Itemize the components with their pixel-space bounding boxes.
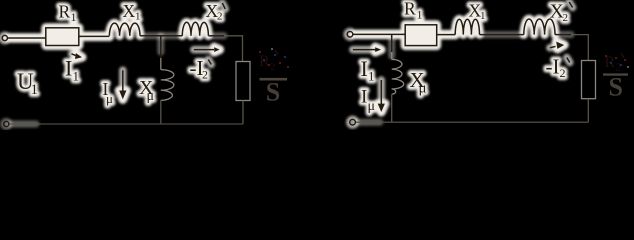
svg-text:2: 2: [217, 11, 223, 23]
svg-text:1: 1: [417, 8, 423, 22]
svg-text:μ: μ: [368, 99, 376, 114]
terminal top-right: [347, 32, 353, 38]
resistor R1 right: [405, 25, 437, 46]
wire X2' to corner right: [555, 34, 571, 36]
resistor R2'/S left (gray): [236, 62, 250, 101]
wire R1 to X1 left: [79, 35, 110, 37]
halo: left input wire: [8, 33, 46, 43]
halo: resistor R1 right: [405, 25, 437, 46]
svg-text:1: 1: [480, 10, 486, 22]
svg-text:I: I: [361, 87, 367, 108]
halo: left top terminal: [2, 35, 7, 40]
svg-text:1: 1: [135, 11, 141, 23]
svg-text:2: 2: [560, 66, 566, 80]
halo: junction vertical top left (weak): [157, 36, 164, 52]
fraction bar right: [603, 73, 628, 75]
svg-text:R: R: [404, 0, 416, 19]
halo: wire stub after X2' left (weak): [208, 32, 224, 39]
svg-text:2: 2: [270, 61, 276, 73]
wire terminal to R1 right: [353, 33, 405, 35]
bottom rail left near terminal: [9, 123, 40, 125]
chroma noise specks left: [259, 48, 289, 68]
halo: arrow I1 right: [353, 46, 376, 54]
svg-text:R: R: [259, 53, 270, 70]
chroma noise specks right: [605, 55, 629, 68]
junction vertical lower part left (gray): [160, 58, 162, 70]
inductor X2' right: [524, 19, 555, 35]
arrow Iu right: [380, 80, 382, 107]
inductor X1 right: [455, 19, 479, 34]
halo: wire X1-X2' right (weak): [480, 31, 524, 38]
halo: inductor X2' right: [524, 19, 555, 35]
resistor R2'/S right (gray): [582, 61, 596, 99]
svg-text:-I: -I: [546, 55, 560, 79]
bottom rail right near terminal: [356, 121, 382, 123]
halo: wire R1-X1 left: [79, 32, 110, 42]
wire X1 to X2' left: [140, 35, 182, 37]
wire corner down to R2'/S left (gray): [224, 36, 243, 62]
halo: right rail start (weak): [356, 119, 380, 126]
wire R1 to X1 right: [437, 34, 456, 36]
svg-text:X: X: [123, 1, 136, 21]
halo: arrow -I2' right: [550, 46, 556, 47]
halo: right top terminal: [347, 32, 353, 38]
terminal bottom-left: [4, 121, 9, 126]
halo: left rail start (very weak): [9, 121, 36, 128]
wire terminal to R1 left: [8, 37, 46, 39]
arrow -I2' right: [550, 46, 556, 47]
wire X1 to X2' right: [480, 34, 524, 36]
halo: right input wire: [353, 30, 405, 40]
arrow Iu left: [122, 70, 124, 93]
terminal top-left: [2, 35, 7, 40]
wire Xu to rail left (gray): [160, 100, 162, 124]
inductor X2' left: [182, 22, 208, 35]
halo: inductor X1 right: [455, 19, 479, 34]
junction vertical to Xu right: [391, 34, 393, 52]
svg-text:R: R: [59, 1, 71, 21]
bottom rail left: [40, 123, 243, 125]
halo: right junction vertical (weak): [388, 34, 395, 56]
svg-text:1: 1: [73, 69, 80, 84]
halo: right bottom terminal (medium): [350, 119, 356, 125]
halo: wire X1-X2' left (weak): [140, 32, 182, 39]
halo: left bottom terminal (weak): [4, 121, 9, 126]
svg-text:S: S: [266, 78, 280, 107]
svg-text:2: 2: [202, 68, 208, 82]
svg-text:1: 1: [31, 82, 39, 98]
svg-text:μ: μ: [147, 89, 155, 104]
arrow -I2' left: [194, 49, 214, 51]
halo: inductor X2' left: [182, 22, 208, 35]
svg-text:1: 1: [71, 10, 77, 24]
halo: arrow Iu left: [119, 70, 127, 93]
resistor R1 left: [46, 28, 79, 46]
inductor Xu left (gray): [161, 70, 174, 101]
svg-text:S: S: [609, 73, 623, 102]
halo: wire stub after X2' right (weak): [555, 31, 571, 38]
inductor X1 left: [109, 23, 140, 36]
halo: inductor X1 left: [109, 23, 140, 36]
halo: arrow -I2' left: [194, 46, 214, 54]
svg-text:2: 2: [563, 12, 569, 24]
halo: arrow I1 left: [72, 54, 78, 56]
inductor Xu right (gray): [392, 59, 404, 89]
wire X2' to corner left: [208, 35, 224, 37]
halo: arrow Iu right: [378, 80, 386, 107]
svg-text:μ: μ: [106, 91, 113, 106]
bottom rail right: [382, 121, 588, 123]
wire corner down to R2'/S right (gray): [571, 35, 588, 61]
wire Xu to rail right (gray): [391, 94, 393, 122]
arrow I1 left: [72, 54, 78, 56]
wire R2'/S to rail right (gray): [587, 99, 589, 123]
halo: wire R1-X1 right: [437, 30, 456, 40]
inductor Xu bottom hook right (gray): [392, 89, 396, 94]
junction vertical to Xu left: [160, 36, 162, 58]
junction vertical lower right (gray): [391, 52, 393, 59]
halo: resistor R1 left: [46, 28, 79, 46]
svg-text:I: I: [361, 56, 368, 81]
svg-text:I: I: [65, 56, 72, 81]
svg-text:μ: μ: [419, 81, 427, 97]
terminal bottom-right: [350, 119, 356, 125]
svg-text:1: 1: [368, 69, 375, 84]
fraction bar left: [260, 78, 288, 81]
arrow I1 right: [353, 49, 376, 51]
wire R2'/S to rail left (gray): [242, 101, 244, 125]
